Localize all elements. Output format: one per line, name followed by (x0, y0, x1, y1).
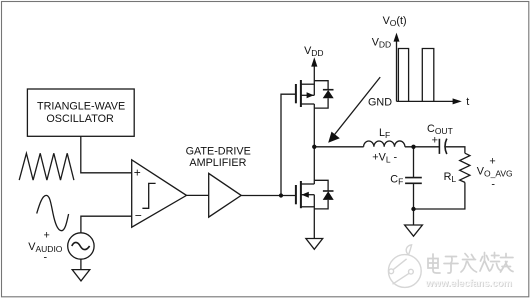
wire lower body tie to source and down to ground (313, 195, 315, 239)
junction dot gate branch (279, 193, 283, 197)
y-axis arrowhead (394, 33, 400, 42)
wire upper drain down to node (313, 104, 315, 147)
svg-text:CF: CF (390, 174, 403, 187)
svg-text:AMPLIFIER: AMPLIFIER (189, 157, 246, 169)
svg-text:VO(t): VO(t) (383, 15, 407, 28)
upper diode D1 triangle (323, 90, 334, 98)
svg-text:VDD: VDD (304, 45, 323, 58)
capacitor COUT flat plate (438, 139, 440, 154)
svg-text:GND: GND (368, 96, 392, 108)
oscillator box U1 (27, 89, 134, 136)
svg-text:-: - (491, 178, 495, 190)
upper diode D1 branch (314, 81, 328, 90)
junction dot after inductor (411, 145, 415, 149)
svg-text:OSCILLATOR: OSCILLATOR (46, 113, 114, 125)
pulse 2 (422, 49, 434, 102)
junction dot output node (312, 145, 316, 149)
wire inductor to COUT (405, 146, 439, 148)
ground under lower MOSFET (306, 239, 323, 250)
svg-text:+VL -: +VL - (372, 151, 397, 164)
lower MOSFET body arrow (NMOS, points left) (302, 192, 309, 198)
svg-text:TRIANGLE-WAVE: TRIANGLE-WAVE (37, 101, 125, 113)
lower MOSFET body lead (301, 194, 314, 196)
lower diode D2 triangle (323, 191, 334, 200)
watermark chinese text (hand-drawn strokes) (428, 253, 513, 274)
ground at output filter (405, 225, 423, 236)
svg-text:+: + (134, 166, 141, 180)
lower diode D2 cathode bar (323, 190, 334, 192)
AC source VAUDIO circle (68, 233, 94, 259)
svg-text:VDD: VDD (372, 36, 391, 49)
upper MOSFET source lead top (301, 83, 314, 85)
wire node to inductor (314, 146, 363, 148)
wire RL bottom rail to CF node (414, 182, 465, 209)
lower MOSFET Q2 gate bar (295, 185, 297, 204)
wire node down to lower drain (313, 147, 315, 184)
VDD arrowhead (311, 57, 317, 66)
wire gate branch vertical (281, 94, 296, 195)
wire COUT to RL corner (446, 147, 465, 153)
wire CF to bottom rail (413, 183, 415, 209)
lower diode D2 branch (314, 180, 328, 191)
annotation arrowhead (328, 132, 340, 143)
upper MOSFET drain lead bottom (301, 103, 314, 105)
upper MOSFET Q1 gate bar (295, 84, 297, 103)
resistor RL zigzag (460, 153, 470, 182)
upper MOSFET body arrow (PMOS, points right) (307, 92, 314, 98)
wire bottom node to ground (413, 209, 415, 225)
svg-text:LF: LF (379, 127, 390, 140)
wire source top to minus input (81, 216, 132, 233)
annotation arrow line (333, 77, 381, 137)
wire source bottom to ground (80, 259, 82, 269)
lower MOSFET Q2 channel bar (300, 181, 302, 208)
comparator step glyph (142, 183, 155, 208)
upper diode D1 cathode bar (323, 89, 334, 91)
wire node down to CF (413, 147, 415, 178)
svg-text:-: - (44, 252, 48, 264)
x-axis arrowhead (453, 98, 462, 104)
lower MOSFET source lead bottom (301, 206, 314, 208)
comparator U2 triangle (132, 160, 187, 227)
inductor LF coils (364, 141, 405, 147)
lower MOSFET drain lead top (301, 183, 314, 185)
junction dot bottom rail (411, 207, 415, 211)
svg-text:+: + (44, 230, 50, 242)
capacitor COUT curved plate (445, 139, 447, 155)
upper MOSFET body lead (301, 94, 314, 96)
wire buffer output to gates (241, 195, 296, 197)
svg-text:RL: RL (444, 171, 457, 184)
wire from oscillator box down to comparator + input (81, 136, 132, 173)
gate-drive buffer U3 triangle (209, 173, 242, 217)
svg-text:+: + (432, 135, 438, 147)
triangle-wave symbol (19, 153, 74, 180)
sine-wave symbol (37, 195, 69, 230)
svg-text:+: + (489, 155, 495, 167)
svg-text:GATE-DRIVE: GATE-DRIVE (186, 146, 251, 158)
wire comparator output to buffer (187, 194, 209, 196)
pulse 1 (398, 49, 408, 102)
upper MOSFET Q1 channel bar (300, 80, 302, 107)
svg-text:t: t (466, 96, 469, 108)
svg-text:www.elecfans.com: www.elecfans.com (425, 278, 513, 289)
capacitor CF bottom plate (405, 182, 422, 184)
capacitor CF top plate (405, 177, 422, 179)
ground under audio source (72, 270, 90, 281)
sine glyph inside source (72, 242, 90, 249)
watermark logo (388, 245, 421, 288)
Vo(t) graph x-axis (397, 100, 454, 102)
Vo(t) graph y-axis (396, 39, 398, 101)
wire VDD to upper source and body tie (313, 63, 315, 95)
svg-text:−: − (135, 209, 142, 223)
